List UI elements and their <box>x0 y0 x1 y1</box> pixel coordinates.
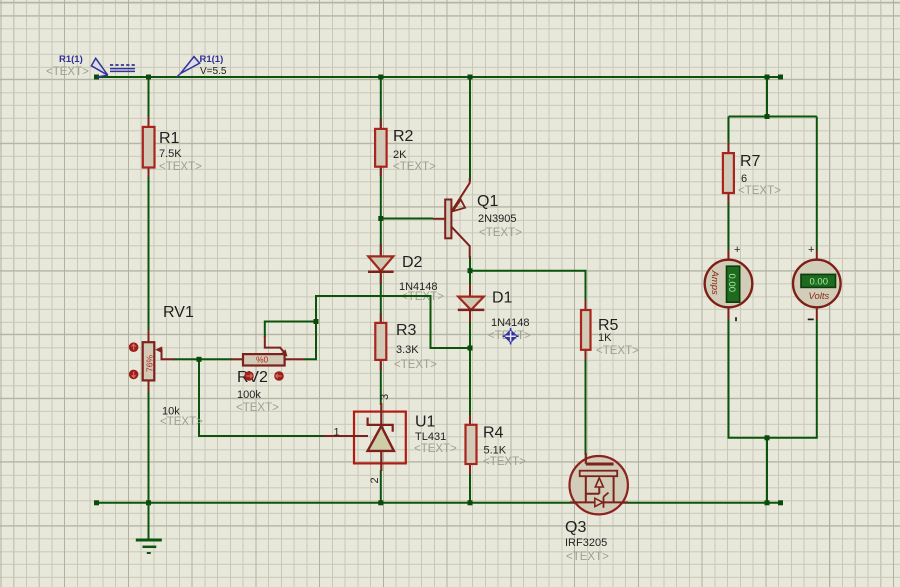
wire Q1 collector to D1/R4 vertical <box>469 256 471 503</box>
resistor R5 <box>581 300 639 360</box>
node R2 top <box>378 75 383 80</box>
diode D2 <box>368 244 444 303</box>
svg-text:<TEXT>: <TEXT> <box>159 161 202 173</box>
potentiometer RV1 <box>129 304 203 428</box>
svg-text:6: 6 <box>741 173 747 185</box>
svg-text:<TEXT>: <TEXT> <box>479 227 522 239</box>
svg-text:<TEXT>: <TEXT> <box>393 161 436 173</box>
svg-text:+: + <box>734 244 740 256</box>
resistor R3 <box>375 313 437 371</box>
resistor R1 <box>143 117 202 177</box>
node top-left end <box>94 75 99 80</box>
svg-text:U1: U1 <box>415 414 436 431</box>
node bottom-right end <box>778 500 783 505</box>
resistor R4 <box>466 415 527 474</box>
node meters bottom rail <box>765 500 770 505</box>
svg-text:Volts: Volts <box>809 291 830 302</box>
svg-text:<TEXT>: <TEXT> <box>394 359 437 371</box>
svg-text:R1: R1 <box>159 130 180 147</box>
node meters return junction <box>765 435 770 440</box>
wire tap to U1 ref pin <box>199 359 323 436</box>
svg-text:<TEXT>: <TEXT> <box>160 416 203 428</box>
node top-right end <box>778 75 783 80</box>
svg-text:2N3905: 2N3905 <box>478 213 517 225</box>
node J1 feedback junction <box>314 319 319 324</box>
svg-text:TL431: TL431 <box>415 431 446 443</box>
svg-text:RV1: RV1 <box>163 304 194 321</box>
svg-text:D2: D2 <box>402 254 423 271</box>
svg-text:3: 3 <box>379 394 391 400</box>
svg-text:R4: R4 <box>483 425 504 442</box>
svg-text:<TEXT>: <TEXT> <box>236 402 279 414</box>
MOSFET Q3 <box>565 453 628 563</box>
origin marker (blue compass icon) <box>503 328 519 345</box>
svg-text:1N4148: 1N4148 <box>491 317 530 329</box>
svg-text:<TEXT>: <TEXT> <box>414 443 457 455</box>
svg-text:IRF3205: IRF3205 <box>565 537 607 549</box>
svg-text:76%: 76% <box>145 355 155 372</box>
node meters top <box>765 75 770 80</box>
node D1 cathode junction <box>468 346 473 351</box>
svg-text:1K: 1K <box>598 332 612 344</box>
svg-text:R1(1): R1(1) <box>59 54 83 65</box>
wire node J1 to RV2 wiper <box>265 322 316 338</box>
svg-text:R7: R7 <box>740 153 761 170</box>
svg-text:<TEXT>: <TEXT> <box>596 345 639 357</box>
ammeter <box>705 244 753 321</box>
node RV1 wiper junction <box>197 357 202 362</box>
IC U1 TL431 <box>323 394 457 484</box>
wire voltmeter branch <box>767 117 817 438</box>
transistor Q1 <box>433 178 522 258</box>
node U1 bottom rail <box>378 500 383 505</box>
potentiometer RV2 <box>231 336 304 414</box>
node collector junction <box>468 268 473 273</box>
wire ammeter bottom <box>729 318 768 438</box>
svg-text:V=5.5: V=5.5 <box>200 66 227 77</box>
wire meters top link <box>729 77 817 117</box>
resistor R2 <box>375 119 436 176</box>
wire R7 branch <box>728 117 730 251</box>
wire node J1 down to RV2 right pin <box>304 322 316 360</box>
node Q1 emitter top <box>468 75 473 80</box>
svg-text:Q3: Q3 <box>565 519 586 536</box>
DC generator probe <box>46 54 135 78</box>
svg-text:2K: 2K <box>393 149 407 161</box>
svg-text:7.5K: 7.5K <box>159 148 182 160</box>
wire RV1 wiper to RV2 left pin <box>173 358 232 360</box>
wire collector node to R5 <box>470 271 586 300</box>
wire Q1 base <box>381 218 433 220</box>
diode D1 <box>458 284 531 342</box>
svg-text:Amps: Amps <box>709 270 720 296</box>
svg-text:<TEXT>: <TEXT> <box>566 551 609 563</box>
svg-text:D1: D1 <box>492 290 513 307</box>
wire Q1 emitter vertical <box>469 77 471 181</box>
wire bottom rail <box>97 502 781 504</box>
wire R2/U1 branch vertical <box>380 77 382 503</box>
node bottom-left end <box>94 500 99 505</box>
node meters link <box>765 114 770 119</box>
svg-text:3.3K: 3.3K <box>396 344 419 356</box>
svg-text:+: + <box>808 244 814 256</box>
svg-text:%0: %0 <box>256 355 269 365</box>
node R4 bottom rail <box>468 500 473 505</box>
wire overlay feedback crossing <box>370 295 431 297</box>
svg-text:R3: R3 <box>396 322 417 339</box>
svg-text:0.00: 0.00 <box>726 274 737 293</box>
node Q1 base junction <box>378 216 383 221</box>
svg-text:100k: 100k <box>237 389 261 401</box>
resistor R7 <box>723 143 781 203</box>
ground <box>136 503 162 553</box>
svg-text:0.00: 0.00 <box>810 276 829 287</box>
svg-text:<TEXT>: <TEXT> <box>483 456 526 468</box>
svg-text:2: 2 <box>369 477 381 483</box>
node RV1 bottom rail <box>146 500 151 505</box>
wire feedback from node J1 to D1 cathode node <box>316 296 470 348</box>
voltmeter <box>793 244 841 320</box>
svg-text:5.1K: 5.1K <box>484 445 507 457</box>
svg-text:<TEXT>: <TEXT> <box>738 185 781 197</box>
wire R5 to Q3 gate <box>585 360 587 455</box>
svg-text:1: 1 <box>334 427 340 439</box>
wire meters return to bottom rail <box>766 438 768 503</box>
voltage probe R1(1) <box>177 54 227 77</box>
node R1 top <box>146 75 151 80</box>
svg-text:R1(1): R1(1) <box>200 54 224 65</box>
svg-text:R2: R2 <box>393 128 414 145</box>
svg-text:Q1: Q1 <box>477 193 498 210</box>
wire R1 branch vertical <box>148 77 150 503</box>
wire top rail <box>97 76 781 78</box>
svg-text:<TEXT>: <TEXT> <box>46 66 89 78</box>
